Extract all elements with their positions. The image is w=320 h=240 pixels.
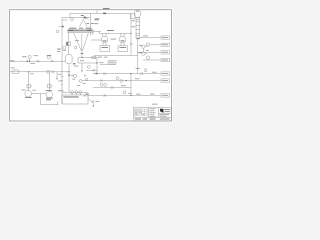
tiny circle in cone area [74, 46, 77, 49]
internal arrow wire [63, 19, 68, 21]
pump discharge wire y93.5 [32, 93, 47, 95]
circle stems to box2 [72, 94, 80, 96]
instrument circle mid-left [63, 46, 66, 49]
compressor K-101 [101, 36, 108, 43]
label box y45 [161, 43, 170, 46]
dark dashes near vessel label [57, 48, 61, 51]
wire y92.3 over box2 [62, 91, 88, 93]
drain diagonal from box2 [88, 99, 94, 107]
border frame [10, 10, 172, 121]
text specks above exchanger [69, 28, 77, 29]
wire y73.5 long [93, 73, 161, 75]
title block outer [134, 107, 172, 121]
text near right lines [121, 84, 126, 87]
agitator triangle above band [80, 20, 88, 27]
pump P-101A base [25, 96, 32, 98]
column tray ticks [136, 20, 140, 36]
valve y80.5 [100, 79, 103, 81]
instrument circle line A right [47, 56, 50, 59]
instrument circle left of box [56, 30, 59, 33]
wire x82 drop [81, 63, 83, 72]
valve line A right [51, 60, 54, 62]
arrow label on y13.5 [103, 13, 106, 15]
wire vertical x131 [130, 14, 132, 56]
cluster marks right of vessel [84, 75, 86, 77]
valve y70 [92, 69, 95, 71]
text above y37.5 wire [143, 35, 148, 38]
instrument circles y85 [100, 83, 103, 86]
title block bottom strip divider [134, 116, 172, 118]
sump box 2 [62, 95, 88, 104]
dark valve blob on box top [84, 17, 87, 19]
header wire y33.5 [99, 31, 131, 33]
text in compressor circles [103, 40, 107, 41]
valve on box top [86, 17, 89, 20]
wire vertical x97 [96, 58, 98, 74]
instrument circle on box top [71, 18, 74, 21]
text label line A [22, 55, 27, 58]
vessel outlet vertical [68, 64, 70, 93]
dark specks on box top [81, 15, 84, 16]
wire y64.5 stub [100, 64, 116, 66]
small box on downcomer [66, 42, 70, 46]
wire line A left feed [10, 60, 66, 62]
bottom strip text row [135, 119, 141, 120]
valve bowtie on line A [27, 60, 30, 62]
wire y31.5 to compressor [93, 30, 101, 32]
inner box right edge [90, 18, 92, 36]
wire y63 [78, 62, 97, 64]
instrument cluster right circles [142, 45, 145, 48]
discharge elbow down [41, 94, 59, 105]
compressor K-101 stubs [103, 34, 106, 37]
valve on line B [51, 71, 54, 74]
column bottom wire [137, 38, 139, 74]
instrument stem [28, 59, 31, 62]
pump discharge marks [33, 89, 36, 92]
company logo [160, 109, 163, 113]
wire y87.5 [93, 87, 131, 89]
tiny text dashes (labels) [10, 8, 168, 105]
wire top to column y13.5 [70, 10, 131, 18]
drain valve [92, 100, 95, 102]
title block divider x148.5 [148, 107, 150, 117]
text inside cone [75, 39, 79, 42]
text between compressors [111, 38, 117, 41]
cyclone downcomer wire [81, 51, 83, 58]
text above top border [103, 8, 110, 9]
wire y95.5 long [88, 95, 161, 97]
right col row2 text [160, 113, 170, 116]
logo text lines [164, 108, 170, 111]
package box left edge [61, 18, 63, 105]
vessel V-102 [66, 55, 73, 64]
cluster specks [139, 44, 142, 47]
cone inner line [81, 34, 84, 51]
wire to label box y52.3 [138, 51, 161, 53]
motor box K-102 [118, 46, 128, 52]
rev table text dashes [135, 109, 137, 112]
wire to label box y37.5 [140, 37, 161, 39]
title block [134, 107, 172, 121]
dark small symbols [27, 59, 30, 63]
wire line B left feed [10, 71, 70, 73]
wire y70 [86, 69, 97, 71]
text near downcomer [63, 49, 67, 52]
inline box on y57 [92, 56, 96, 59]
valve X2 on line A [36, 60, 39, 63]
label box y37.5 [161, 36, 170, 39]
right cluster small circle [144, 69, 147, 72]
wire x131 lower [130, 74, 132, 96]
wire to label box y45 [150, 44, 161, 46]
text specks right column [94, 18, 99, 21]
valve right y73.5 [140, 72, 143, 74]
compressor K-102 [119, 36, 126, 43]
pump P-101B [46, 91, 52, 97]
wire drop to pump P-101A [28, 72, 30, 91]
downcomer lower [68, 46, 70, 55]
suction wire K-101 [91, 39, 101, 41]
pump P-101B base [46, 97, 53, 99]
instrument box above P-101A [27, 85, 30, 88]
wire drop to pump P-101B [48, 72, 50, 92]
label box y73.5 [161, 72, 170, 75]
label box y52.3 [161, 51, 170, 54]
text y30 leader [107, 30, 114, 31]
specks row y23.5 [87, 22, 90, 25]
rev table grid [135, 109, 148, 116]
instrument circle cross [73, 74, 76, 77]
text label pump [22, 89, 26, 92]
specks below y55.5 [98, 56, 103, 59]
dark blob near box2 right [86, 94, 89, 95]
package box top edge [62, 17, 91, 19]
right col divider [159, 113, 172, 115]
inlet box column [131, 14, 136, 19]
label box y80.5 [161, 79, 170, 82]
feed arrow short [59, 26, 63, 28]
arrowhead y80.5 [126, 80, 128, 82]
motor box K-101 [100, 46, 110, 52]
exchanger stub right [92, 32, 94, 35]
ticks on x62 [61, 77, 63, 85]
title block divider x158.5 [158, 107, 160, 117]
column C-101 body [136, 18, 140, 39]
cyclone cone [74, 33, 89, 51]
instrument circle above line A [28, 55, 31, 58]
instrument circle small [79, 80, 82, 83]
text above sump boxes [46, 89, 53, 92]
small circle cluster [85, 78, 88, 81]
downcomer to vessel [68, 32, 70, 42]
instrument circle y92 [123, 91, 126, 94]
column C-101 top drum [135, 10, 141, 18]
label box y60 [161, 58, 170, 61]
exchanger dark ticks [68, 29, 92, 32]
valve y73.5 [103, 72, 106, 74]
exchanger E-101 shell [68, 30, 93, 33]
text in label boxes right [162, 36, 168, 39]
branch arrow down at x57 [56, 72, 58, 80]
text labels center low [80, 59, 84, 62]
valve on x131 [130, 43, 133, 45]
K-101 legs [103, 43, 106, 46]
paper sheet [9, 9, 173, 123]
valve y87.5 [111, 86, 114, 88]
instrument box above P-101B [48, 85, 51, 88]
compressor K-102 stubs [121, 34, 124, 37]
text right of box top [95, 17, 99, 20]
label box y95.5 [161, 94, 170, 97]
wire to label box y60 [143, 59, 161, 61]
junction dots [28, 33, 138, 96]
instrument circles on y92 [71, 91, 74, 94]
inline silencer on line B [12, 70, 19, 74]
K-102 legs [121, 43, 124, 46]
valve y95.5 [104, 94, 107, 96]
text branch x57 [58, 80, 62, 83]
instrument circles y78 [116, 77, 119, 80]
wire y55.5 wide [94, 55, 138, 57]
valve y73.5 right [95, 72, 98, 74]
arrow head dark [63, 25, 65, 27]
wire y57.5 header [78, 57, 97, 59]
middle column text lines [150, 107, 156, 110]
drum top dash [136, 11, 139, 12]
valve near box2 right [84, 94, 87, 96]
instrument circle on line B [47, 70, 50, 73]
inline label box y62 [108, 61, 116, 64]
wire x78 stub [77, 58, 79, 64]
pump P-101A [25, 90, 32, 97]
instrument circle pair [87, 65, 90, 68]
wire y80.5 long [82, 80, 161, 82]
